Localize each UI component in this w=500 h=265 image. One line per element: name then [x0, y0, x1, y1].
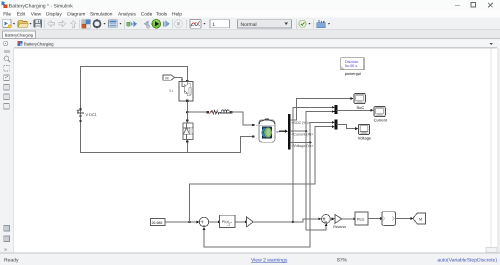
wire: Vref up to mux2 — [190, 127, 332, 222]
svg-text:Help: Help — [172, 11, 182, 17]
svg-text:auto(VariableStepDiscrete): auto(VariableStepDiscrete) — [437, 257, 497, 263]
canvas — [14, 48, 497, 253]
arrowhead mux2 in2 — [332, 125, 335, 128]
DC voltage source V DC1 — [77, 108, 97, 122]
signal label SOC — [291, 121, 310, 125]
sep — [44, 20, 46, 29]
arrowhead sum1 left — [197, 221, 200, 224]
signal label Voltage — [291, 144, 313, 148]
breadcrumb bar — [0, 39, 500, 48]
wire: PI2 to saturation — [368, 218, 380, 220]
PI controller 2 — [355, 212, 368, 225]
node: voltage junction — [309, 141, 311, 143]
gear icon — [92, 19, 106, 28]
arrowhead PI2 — [353, 217, 356, 220]
step forward — [163, 21, 169, 27]
sum2 — [322, 215, 331, 224]
wire: main loop bottom — [81, 152, 241, 154]
arrowhead sum2 bottom — [325, 223, 328, 226]
signal label Current — [291, 133, 313, 137]
new icon — [3, 19, 16, 28]
arrowhead Voltage scope — [355, 127, 358, 130]
svg-text:BatteryCharging: BatteryCharging — [5, 32, 33, 37]
svg-text:V DC1: V DC1 — [86, 113, 97, 117]
arrowhead PI1 — [218, 220, 221, 223]
svg-text:Voltage: Voltage — [358, 136, 372, 141]
svg-text:File: File — [3, 11, 11, 17]
Current scope — [374, 106, 388, 122]
svg-text:Current: Current — [374, 118, 388, 123]
svg-text:Diagram: Diagram — [67, 11, 85, 17]
wire: From tag to IGBT gate — [175, 78, 182, 80]
window buttons — [455, 3, 493, 8]
sep — [186, 20, 188, 29]
run button — [152, 19, 161, 28]
series RLC branch (R + L) — [207, 110, 233, 114]
arrowhead sum1 bottom — [203, 227, 206, 230]
wire: PI1 to gain1 — [235, 221, 245, 223]
Voltage scope — [358, 124, 372, 140]
wire: battery minus to bottom loop — [240, 136, 252, 152]
arrowhead Goto — [411, 217, 414, 220]
sum1 — [199, 217, 208, 226]
node: Iref junction — [292, 221, 294, 223]
wire: gain1 to sum2 (Iref) — [253, 219, 318, 222]
arrowhead mux1 in2 — [332, 110, 335, 113]
wire: to RL branch — [187, 111, 207, 113]
open folder — [18, 20, 32, 27]
svg-text:Reverse: Reverse — [333, 225, 346, 229]
arrowhead into gate — [181, 79, 184, 81]
svg-text:powergui: powergui — [345, 71, 361, 76]
svg-text:+: + — [256, 124, 258, 128]
wire: constant to sum1 — [165, 221, 198, 223]
save floppy — [34, 20, 42, 28]
battery measurement output m — [276, 130, 288, 134]
wire: IGBT emitter down — [186, 102, 188, 122]
svg-text:View: View — [31, 11, 42, 17]
svg-text:Code: Code — [141, 11, 153, 17]
arrowhead saturation — [380, 217, 383, 220]
PI controller 1 — [219, 215, 235, 227]
IGBT S1 — [169, 80, 193, 102]
svg-text:View 2 warnings: View 2 warnings — [251, 257, 288, 263]
Goto tag M — [413, 213, 426, 224]
sep — [296, 20, 298, 29]
node: chopper output — [186, 111, 189, 114]
sep — [79, 20, 81, 29]
svg-text:<SOC (%)>: <SOC (%)> — [291, 121, 310, 125]
saturation block — [382, 212, 396, 226]
wire: gain2 to PI2 — [342, 218, 354, 220]
svg-text:Normal: Normal — [241, 22, 257, 28]
wire: chopper node down to diode — [186, 112, 188, 152]
wire: sum1 to PI1 — [209, 221, 218, 223]
toolbar — [0, 18, 500, 31]
arrowhead Current scope — [371, 109, 374, 112]
sim data inspector icon — [190, 19, 206, 28]
sep — [124, 20, 126, 29]
svg-text:Simulation: Simulation — [90, 11, 113, 17]
svg-text:»: » — [4, 247, 7, 253]
wire: main loop top — [81, 66, 188, 68]
svg-text:m: m — [276, 130, 279, 134]
wire: SOC to SoC scope — [291, 99, 351, 121]
stop (disabled) — [175, 20, 183, 28]
svg-text:S1: S1 — [169, 89, 173, 93]
node: current junction — [305, 130, 307, 132]
svg-text:Tools: Tools — [156, 11, 168, 17]
diode D1 — [183, 120, 193, 143]
wire: main loop left — [80, 67, 82, 153]
build icon — [317, 20, 330, 28]
title bar — [0, 0, 500, 10]
svg-text:87%: 87% — [337, 257, 348, 263]
sep — [172, 20, 174, 29]
arrowhead gain1 — [245, 220, 248, 223]
wire: saturation to Goto — [396, 218, 411, 220]
wire: mux1 to Current scope — [337, 109, 371, 111]
bus selector — [288, 114, 290, 149]
step back (disabled) — [144, 21, 149, 28]
wire: Iref up to mux1 — [293, 107, 332, 222]
mux1 — [335, 105, 338, 114]
arrowhead mux1 in1 — [332, 106, 335, 109]
wire: current up to mux1 — [306, 112, 332, 132]
wire: voltage feedback down to sum1 — [204, 142, 310, 247]
svg-text:Analysis: Analysis — [118, 11, 136, 17]
battery ports — [252, 124, 258, 141]
battery block — [259, 118, 275, 142]
svg-text:PI(z): PI(z) — [222, 220, 230, 224]
wire: current down to sum2 — [306, 131, 326, 230]
arrowhead SoC scope — [351, 97, 354, 100]
wire: loop into IGBT collector — [186, 67, 188, 82]
svg-text:26.988: 26.988 — [152, 221, 163, 225]
svg-text:BatteryCharging: BatteryCharging — [24, 42, 54, 47]
left palette — [0, 48, 14, 253]
svg-text:5e-05 s.: 5e-05 s. — [345, 64, 358, 68]
library icon — [82, 20, 91, 29]
check icon — [299, 20, 311, 27]
fwd arrow (disabled) — [59, 21, 66, 27]
svg-text:M: M — [165, 76, 168, 80]
svg-text:M: M — [419, 217, 422, 221]
fast restart icon — [127, 21, 137, 27]
menu bar — [0, 10, 500, 18]
constant 26.988 — [150, 219, 165, 226]
From tag M — [163, 75, 175, 81]
wire: mux2 to Voltage scope — [337, 125, 355, 129]
mux2 — [335, 120, 338, 130]
sep — [313, 20, 315, 29]
title text — [9, 3, 73, 9]
tab bar — [0, 30, 500, 39]
wire: sum2 to gain2 — [330, 218, 332, 220]
wire: voltage up to mux2 — [310, 122, 332, 142]
arrowhead mux2 in1 — [332, 121, 335, 124]
svg-text:Display: Display — [46, 11, 62, 17]
powergui block — [341, 58, 364, 76]
arrowhead sum2 left — [318, 217, 321, 220]
wire: Current signal — [291, 130, 307, 132]
SoC scope — [354, 93, 365, 109]
gain1 — [247, 217, 254, 227]
svg-text:-: - — [256, 136, 257, 140]
normal dropdown — [238, 20, 292, 28]
wire: RL to battery plus — [231, 112, 252, 125]
svg-text:SoC: SoC — [357, 105, 365, 110]
svg-text:1: 1 — [212, 22, 215, 28]
svg-text:PI(z): PI(z) — [357, 217, 365, 221]
svg-text:Ready: Ready — [4, 257, 19, 263]
config icon — [109, 20, 122, 28]
node: Vref junction — [188, 221, 190, 223]
wire: Voltage signal — [291, 141, 311, 143]
status bar — [0, 253, 500, 265]
app icon — [2, 1, 8, 8]
arrowhead gain2 — [332, 217, 335, 220]
up arrow (disabled) — [70, 21, 76, 28]
gain2 Reverse — [333, 214, 346, 229]
sim time field — [210, 20, 230, 28]
svg-text:BatteryCharging * - Simulink: BatteryCharging * - Simulink — [9, 3, 73, 9]
back arrow (disabled) — [48, 21, 55, 27]
svg-text:Edit: Edit — [17, 11, 26, 17]
